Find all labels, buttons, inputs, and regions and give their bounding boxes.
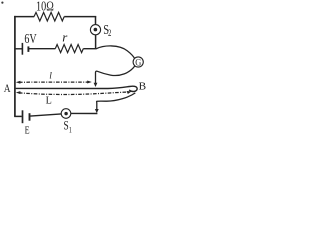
arrow right of L line toward B xyxy=(127,91,132,94)
wire: left vertical rail xyxy=(14,16,16,117)
jockey arrowhead xyxy=(94,83,98,87)
arrow left of l line xyxy=(16,81,21,84)
wire: S1 to bottom-right corner xyxy=(71,112,98,114)
wire: rail to 6V battery xyxy=(15,48,22,50)
battery E long plate xyxy=(22,110,24,123)
solid potentiometer wire A-B with end hook xyxy=(16,86,138,91)
wire: S2 drop upper xyxy=(95,16,97,24)
svg-text:1: 1 xyxy=(69,124,72,134)
svg-text:B: B xyxy=(139,81,147,92)
battery 6V short plate xyxy=(27,46,29,52)
svg-text:6V: 6V xyxy=(24,31,36,46)
arrow left of L line xyxy=(16,91,21,94)
arrow right of l line xyxy=(87,81,92,84)
svg-text:A: A xyxy=(4,81,11,95)
switch S2 (circle with dot) xyxy=(90,25,100,35)
wire: battery to resistor r xyxy=(29,48,56,50)
galvanometer G xyxy=(133,57,143,67)
resistor 10ohm zigzag xyxy=(34,12,64,21)
battery E short plate xyxy=(29,113,31,121)
battery 6V long plate xyxy=(21,43,23,55)
wire: top horizontal (right of 10 ohm) xyxy=(64,16,96,18)
svg-text:G: G xyxy=(135,58,141,68)
wire: jockey from G xyxy=(96,66,135,84)
wire: junction arc to galvanometer xyxy=(96,46,135,59)
svg-text:E: E xyxy=(25,124,30,134)
resistor r zigzag xyxy=(55,45,83,53)
wire: bottom rail corner to E battery xyxy=(14,115,22,117)
wire: r to junction xyxy=(83,48,96,50)
wire: E battery to key S1 xyxy=(30,114,61,116)
stray dot top-left xyxy=(1,1,3,3)
dash-dot line L xyxy=(19,92,128,94)
key S1 (circle with dot) xyxy=(61,109,71,119)
wire: S2 drop lower xyxy=(95,35,97,49)
wire: top horizontal (left of 10 ohm) xyxy=(14,16,34,18)
arrowhead onto bottom wire xyxy=(95,109,99,113)
dash-dot line l xyxy=(19,81,89,83)
svg-text:10Ω: 10Ω xyxy=(36,0,54,13)
svg-text:2: 2 xyxy=(108,28,111,38)
svg-text:l: l xyxy=(49,72,52,82)
wire: B down-curve to bottom circuit xyxy=(97,93,136,110)
svg-text:L: L xyxy=(46,96,52,107)
